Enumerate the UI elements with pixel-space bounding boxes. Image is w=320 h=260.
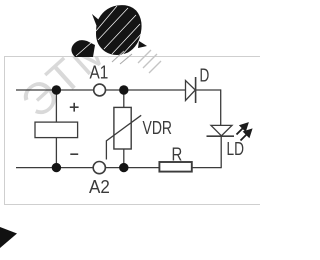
svg-text:R: R [172,144,183,164]
svg-text:LD: LD [227,139,245,159]
svg-text:VDR: VDR [143,118,173,138]
svg-text:A2: A2 [89,177,110,197]
svg-text:A1: A1 [90,63,109,83]
svg-text:D: D [200,66,210,86]
